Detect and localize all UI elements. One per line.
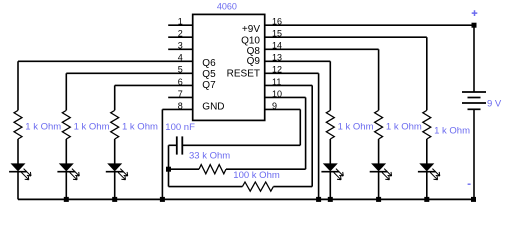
svg-text:Q10: Q10 — [241, 35, 260, 46]
svg-text:RESET: RESET — [227, 69, 260, 80]
svg-text:1 k Ohm: 1 k Ohm — [434, 126, 470, 137]
svg-text:1 k Ohm: 1 k Ohm — [122, 122, 158, 133]
pin 9 wire — [265, 108, 301, 110]
pin 8 GND vertical to rail — [161, 109, 163, 199]
resistor R3 1 k Ohm — [111, 110, 119, 139]
pin 1 wire stub — [168, 24, 193, 26]
svg-text:GND: GND — [202, 101, 224, 112]
svg-text:2: 2 — [178, 29, 183, 39]
svg-text:1 k Ohm: 1 k Ohm — [25, 122, 61, 133]
wire R3 to LED D3 — [114, 139, 116, 164]
pin 12 RESET vertical to rail — [318, 73, 320, 199]
resistor R2 1 k Ohm — [62, 110, 70, 139]
pin 11 wire — [265, 84, 313, 86]
capacitor C1 100 nF left plate — [176, 136, 178, 154]
LED D3 — [107, 163, 122, 171]
svg-text:100 nF: 100 nF — [165, 122, 195, 133]
wire R1 to LED D1 — [17, 139, 19, 164]
pin 6 wire to left branch 3 — [115, 84, 193, 86]
svg-text:1 k Ohm: 1 k Ohm — [386, 122, 422, 133]
wire node A vertical upper — [168, 145, 170, 169]
wire pin 9 to capacitor C1 — [182, 144, 300, 146]
resistor R1 1 k Ohm — [14, 110, 22, 139]
LED D6 — [419, 163, 434, 171]
wire R8 to pin 11 vertical — [273, 186, 312, 188]
wire branch 5 vertical — [378, 49, 380, 110]
pin 12 RESET wire — [265, 72, 319, 74]
battery BT1 positive plate — [462, 91, 486, 93]
svg-text:7: 7 — [178, 89, 183, 99]
node A junction dot — [166, 167, 171, 172]
pin 5 wire to left branch 2 — [66, 72, 192, 74]
svg-text:3: 3 — [178, 41, 183, 51]
resistor R5 1 k Ohm — [375, 110, 383, 139]
wire branch 4 vertical — [329, 61, 331, 110]
wire node A to resistor R8 — [169, 186, 243, 188]
wire R2 to LED D2 — [65, 139, 67, 164]
wire branch 2 vertical — [65, 73, 67, 110]
junction dot branch 5 on rail — [376, 197, 381, 202]
wire D5 to ground rail — [378, 172, 380, 200]
resistor R4 1 k Ohm — [326, 110, 334, 139]
resistor R7 33 k Ohm — [199, 165, 226, 174]
LED D2 — [59, 163, 74, 171]
wire D3 to ground rail — [114, 172, 116, 200]
wire battery negative to rail — [473, 109, 475, 199]
junction dot branch 4 on rail — [328, 197, 333, 202]
svg-text:100 k Ohm: 100 k Ohm — [233, 170, 280, 181]
battery BT1 short plate 1 — [468, 97, 481, 99]
resistor R8 100 k Ohm — [242, 182, 273, 191]
pin 13 wire to right branch 4 — [265, 60, 331, 62]
pin 11 vertical — [311, 85, 313, 186]
pin 7 wire stub — [168, 96, 193, 98]
junction dot branch 6 on rail — [424, 197, 429, 202]
supply node + label — [472, 10, 478, 16]
svg-text:Q7: Q7 — [202, 80, 216, 91]
svg-text:Q9: Q9 — [247, 56, 261, 67]
wire D4 to ground rail — [329, 172, 331, 200]
svg-text:1 k Ohm: 1 k Ohm — [338, 122, 374, 133]
battery BT1 negative plate — [468, 108, 481, 110]
wire node A vertical lower — [168, 169, 170, 186]
svg-text:9 V: 9 V — [487, 98, 502, 109]
wire D2 to ground rail — [65, 172, 67, 200]
wire C1 left plate to node A — [169, 144, 177, 146]
junction dot GND on rail — [160, 197, 165, 202]
wire node A to resistor R7 — [169, 168, 200, 170]
wire branch 6 vertical — [426, 37, 428, 110]
pin 10 vertical — [305, 97, 307, 169]
wire R6 to LED D6 — [426, 139, 428, 164]
junction dot battery on rail — [471, 197, 476, 202]
pin 9 vertical — [299, 109, 301, 145]
junction dot branch 3 on rail — [112, 197, 117, 202]
wire R4 to LED D4 — [329, 139, 331, 164]
wire R5 to LED D5 — [378, 139, 380, 164]
pin 16 +9V wire — [265, 24, 474, 26]
ground rail wire — [18, 198, 474, 200]
pin 2 wire stub — [168, 36, 193, 38]
pin 8 GND wire — [162, 108, 192, 110]
svg-text:4060: 4060 — [217, 2, 237, 12]
resistor R6 1 k Ohm — [423, 110, 431, 139]
wire D1 to ground rail — [17, 172, 19, 200]
svg-text:Q5: Q5 — [202, 69, 216, 80]
wire branch 3 vertical — [114, 85, 116, 110]
junction dot supply top — [472, 23, 477, 28]
supply node - label — [468, 183, 471, 185]
pin 14 wire to right branch 5 — [265, 48, 379, 50]
LED D4 — [323, 163, 338, 171]
svg-text:33 k Ohm: 33 k Ohm — [189, 151, 230, 162]
junction dot RESET on rail — [316, 197, 321, 202]
pin 4 wire to left branch 1 — [18, 60, 193, 62]
LED D5 — [371, 163, 386, 171]
junction dot branch 2 on rail — [64, 197, 69, 202]
capacitor C1 100 nF right plate — [181, 136, 183, 154]
battery BT1 long plate 2 — [462, 102, 486, 104]
svg-text:1 k Ohm: 1 k Ohm — [74, 122, 110, 133]
wire D6 to ground rail — [426, 172, 428, 200]
wire branch 1 vertical — [17, 61, 19, 110]
pin 3 wire stub — [168, 48, 193, 50]
IC U1 4060 body — [193, 14, 265, 120]
wire supply to battery positive — [473, 25, 475, 92]
svg-text:Q6: Q6 — [202, 58, 216, 69]
pin 10 wire — [265, 96, 306, 98]
LED D1 — [11, 163, 26, 171]
pin 15 wire to right branch 6 — [265, 36, 427, 38]
svg-text:+9V: +9V — [242, 24, 260, 35]
wire R7 to pin 10 vertical — [226, 168, 306, 170]
svg-text:1: 1 — [178, 17, 183, 27]
